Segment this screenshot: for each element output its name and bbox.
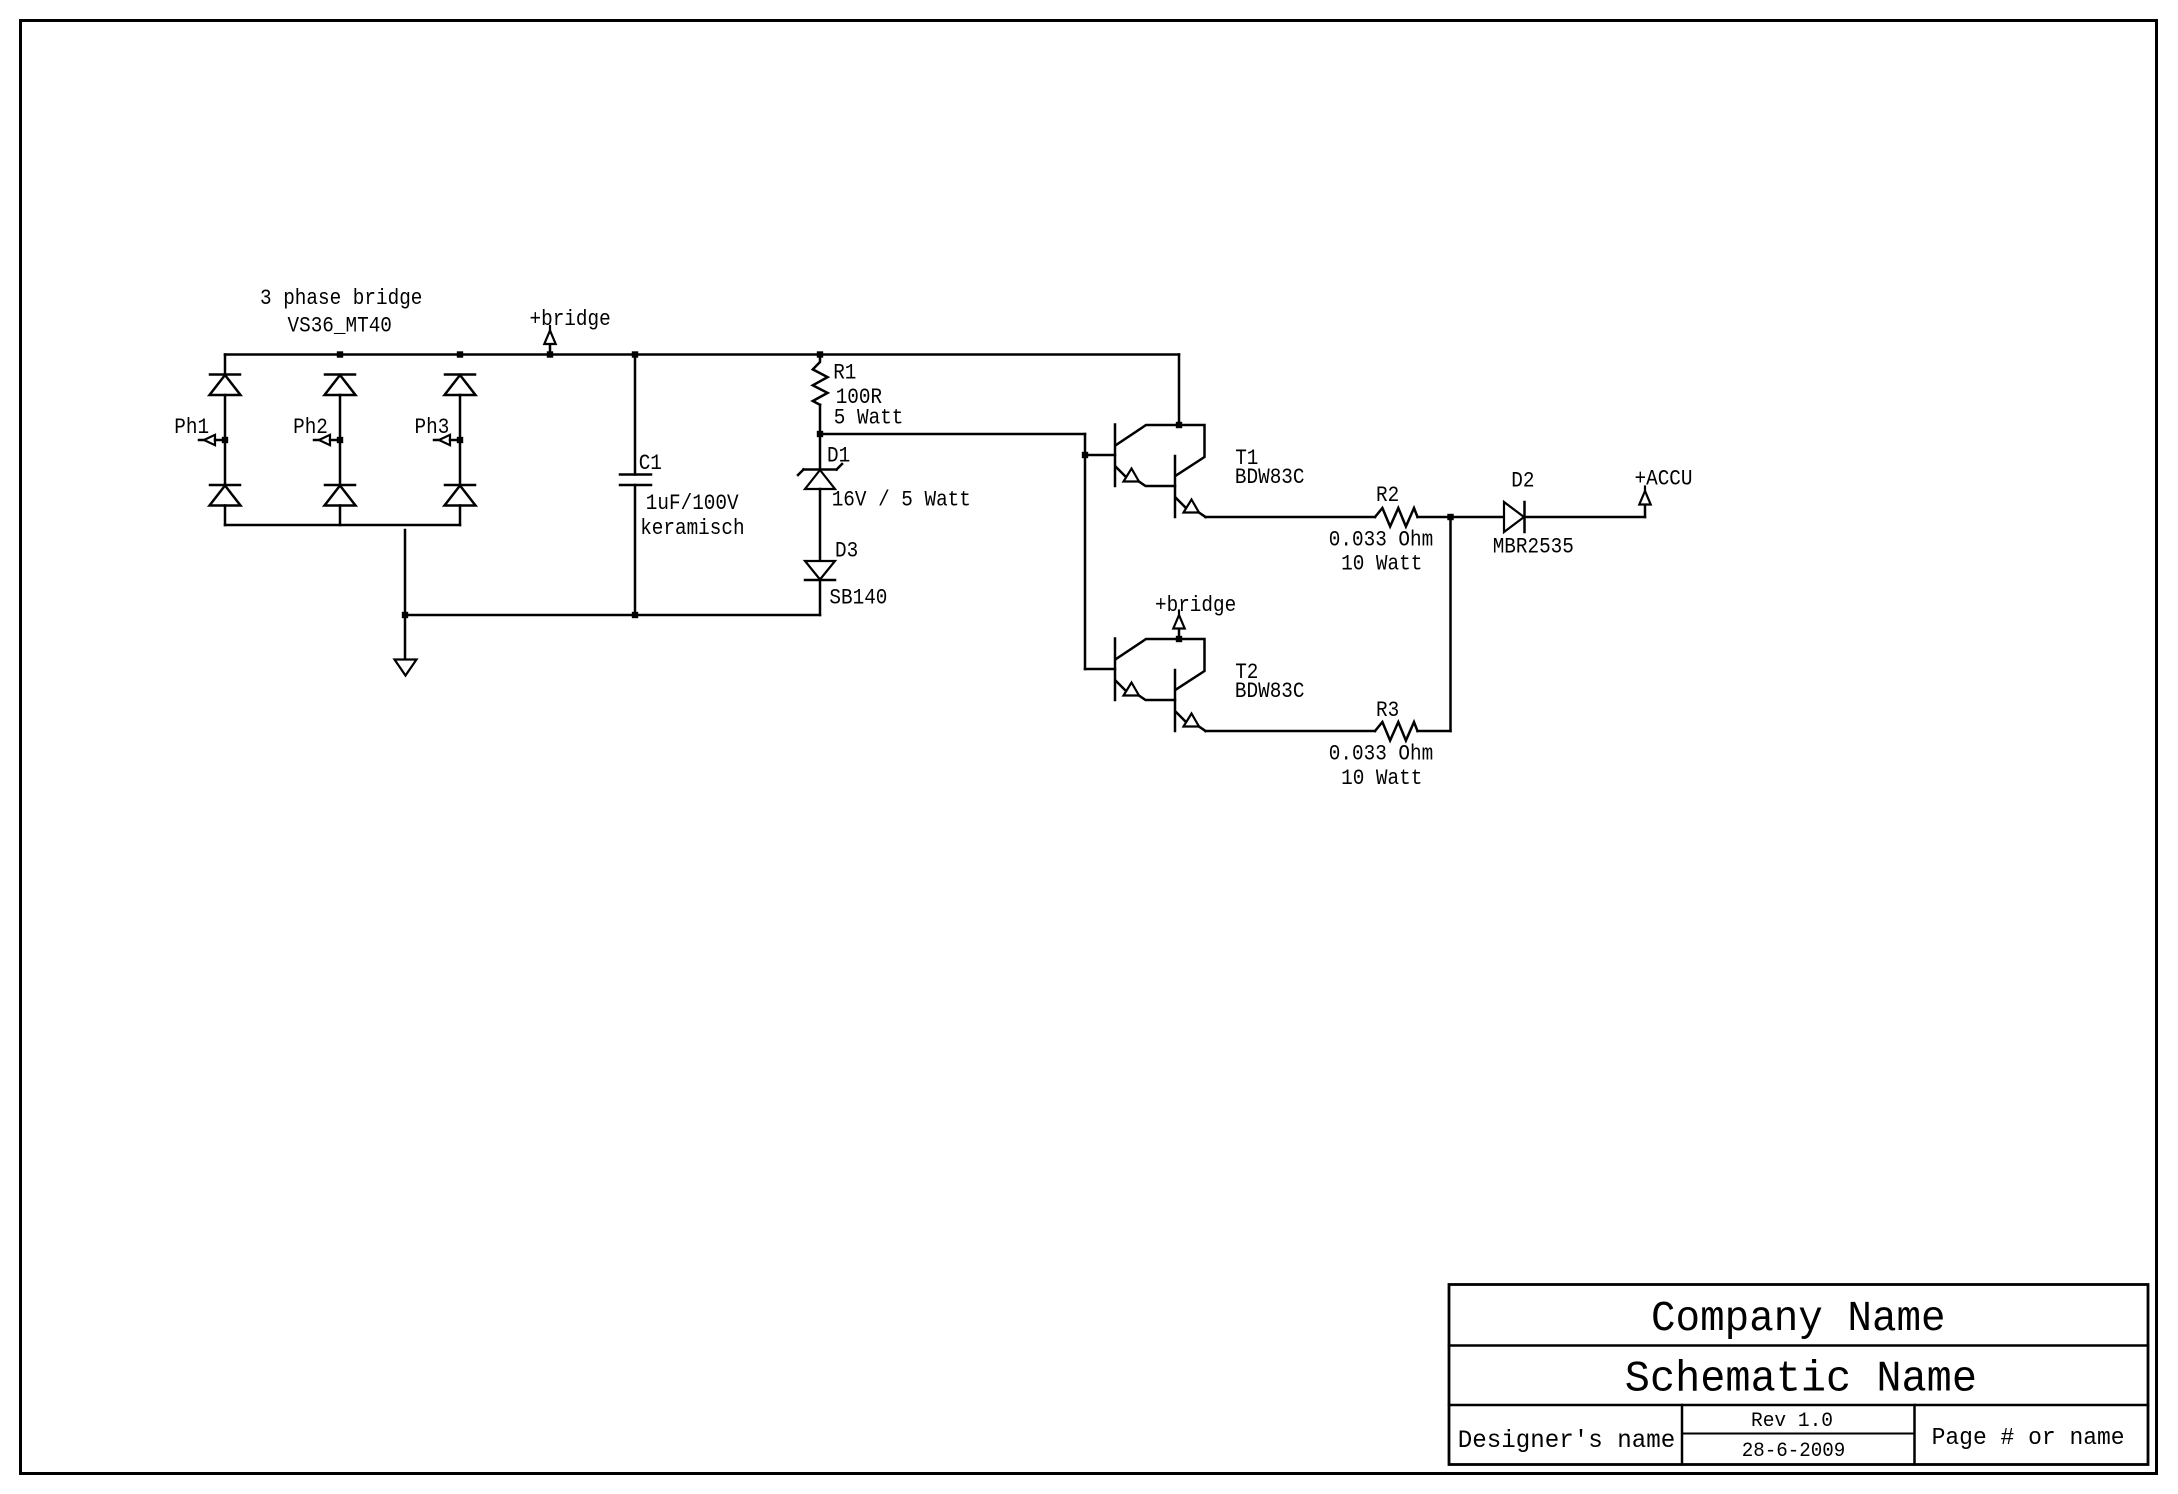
svg-text:R3: R3 — [1376, 698, 1399, 723]
wire base column vertical — [1084, 434, 1087, 669]
svg-text:+bridge: +bridge — [530, 307, 611, 332]
junction T1 collector — [1176, 422, 1182, 428]
svg-text:keramisch: keramisch — [640, 516, 744, 541]
resistor R2 — [1375, 508, 1418, 527]
wire D2 to +ACCU — [1525, 516, 1646, 519]
svg-text:BDW83C: BDW83C — [1235, 465, 1305, 490]
svg-text:R1: R1 — [833, 361, 856, 386]
title block rev/date divider — [1682, 1433, 1915, 1435]
wire bottom bus (ground net) — [405, 614, 820, 617]
ground symbol — [395, 660, 417, 676]
junction R2/R3/D2 node — [1447, 514, 1453, 520]
junction top bus col3 — [457, 351, 463, 357]
svg-text:0.033 Ohm: 0.033 Ohm — [1329, 742, 1433, 767]
diode D2 — [1504, 502, 1524, 532]
junction T2 collector — [1176, 636, 1182, 642]
resistor R3 — [1375, 722, 1418, 741]
diode D3 — [805, 561, 835, 580]
capacitor C1 — [634, 355, 637, 475]
wire bridge bottom bus — [225, 524, 460, 527]
svg-text:D1: D1 — [827, 443, 850, 468]
node Ph2 arrow — [314, 439, 319, 442]
svg-text:1uF/100V: 1uF/100V — [646, 491, 739, 516]
svg-text:Company Name: Company Name — [1651, 1294, 1946, 1343]
svg-text:MBR2535: MBR2535 — [1493, 534, 1574, 559]
wire column 2 bottom — [339, 506, 342, 526]
svg-text:Designer's name: Designer's name — [1458, 1426, 1676, 1455]
junction bottom bus at C1 — [632, 612, 638, 618]
resistor R1 — [813, 355, 828, 405]
wire T2 emitter to R3 — [1206, 730, 1376, 733]
power +bridge symbol (top bus) — [549, 345, 552, 355]
svg-text:SB140: SB140 — [829, 586, 887, 611]
junction T1 base tap — [1082, 452, 1088, 458]
svg-text:Page # or name: Page # or name — [1932, 1425, 2125, 1452]
zener diode D1 — [804, 468, 837, 471]
diode bridge lower D2b — [325, 484, 355, 487]
junction R1 bottom node — [817, 431, 823, 437]
svg-text:R2: R2 — [1376, 483, 1399, 508]
svg-text:D2: D2 — [1511, 469, 1534, 494]
svg-text:3 phase bridge: 3 phase bridge — [260, 286, 422, 311]
diode bridge upper D2a — [325, 373, 355, 376]
diode bridge lower D1b — [210, 484, 240, 487]
svg-text:VS36_MT40: VS36_MT40 — [288, 314, 392, 339]
junction top bus col2 — [337, 351, 343, 357]
wire R3 to riser — [1418, 730, 1451, 733]
wire D1 to D3 — [819, 489, 822, 561]
wire T1 emitter to R2 — [1206, 516, 1376, 519]
transistor T2 (BDW83C darlington) — [1114, 639, 1117, 701]
junction bottom bus at ground stem — [402, 612, 408, 618]
wire column 3 middle — [459, 395, 462, 485]
diode bridge lower D3b — [445, 484, 475, 487]
wire bridge left drop — [224, 355, 227, 375]
svg-text:Rev 1.0: Rev 1.0 — [1751, 1410, 1833, 1433]
wire ground drop — [404, 530, 407, 660]
svg-text:0.033 Ohm: 0.033 Ohm — [1329, 527, 1433, 552]
svg-text:28-6-2009: 28-6-2009 — [1742, 1440, 1846, 1463]
svg-text:5 Watt: 5 Watt — [834, 405, 904, 430]
node Ph1 arrow — [199, 439, 204, 442]
title block divider under schematic row — [1449, 1404, 2148, 1407]
svg-text:Ph2: Ph2 — [293, 415, 328, 440]
svg-text:Ph1: Ph1 — [174, 415, 209, 440]
wire R2 to node — [1418, 516, 1505, 519]
wire D3 to bottom bus — [819, 580, 822, 615]
diode bridge upper D3a — [445, 373, 475, 376]
svg-text:16V / 5 Watt: 16V / 5 Watt — [832, 488, 971, 513]
wire column 1 middle — [224, 395, 227, 485]
svg-text:D3: D3 — [835, 539, 858, 564]
power +ACCU symbol — [1639, 491, 1650, 505]
svg-text:Schematic Name: Schematic Name — [1625, 1355, 1977, 1405]
wire riser R3 to R2 node — [1449, 517, 1452, 731]
svg-text:+ACCU: +ACCU — [1635, 466, 1693, 491]
title block divider under company row — [1449, 1344, 2148, 1347]
svg-text:10 Watt: 10 Watt — [1341, 766, 1422, 791]
wire top bus (+bridge net) — [225, 353, 1179, 356]
power +bridge symbol (T2 collector) — [1178, 629, 1181, 639]
svg-text:BDW83C: BDW83C — [1235, 679, 1305, 704]
svg-text:Ph3: Ph3 — [415, 415, 450, 440]
svg-text:C1: C1 — [639, 451, 662, 476]
title block vertical divider right — [1913, 1405, 1916, 1465]
node Ph3 arrow — [434, 439, 439, 442]
wire column 3 bottom — [459, 506, 462, 526]
wire column 1 bottom — [224, 506, 227, 526]
title block outer box — [1449, 1285, 2148, 1465]
wire R1 node to base column — [820, 433, 1085, 436]
title block vertical divider left — [1681, 1405, 1684, 1465]
svg-text:+bridge: +bridge — [1155, 593, 1236, 618]
diode bridge upper D1a — [210, 373, 240, 376]
wire column 2 middle — [339, 395, 342, 485]
wire top bus drop to T1 collector — [1178, 355, 1181, 426]
svg-text:10 Watt: 10 Watt — [1341, 552, 1422, 577]
transistor T1 (BDW83C darlington) — [1114, 425, 1117, 487]
